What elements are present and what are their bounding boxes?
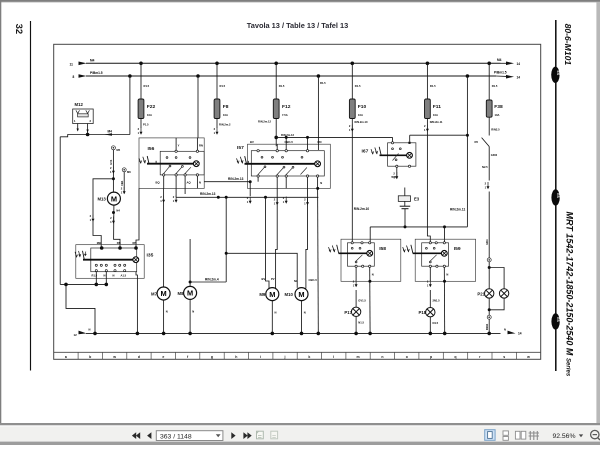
svg-text:s: s — [503, 355, 505, 359]
wire I57 to M9 left — [266, 197, 270, 288]
svg-text:R/N.2m.2: R/N.2m.2 — [219, 122, 231, 126]
switch D5 on F38 column — [475, 138, 498, 181]
node P21 top — [488, 266, 491, 269]
svg-text:d: d — [138, 355, 140, 359]
node 8 bus — [73, 70, 521, 79]
svg-text:N: N — [304, 311, 306, 315]
sidebar badge 3 — [551, 313, 560, 329]
svg-text:R1.5: R1.5 — [279, 84, 285, 88]
svg-text:92.56%: 92.56% — [552, 433, 575, 440]
svg-text:RN: RN — [117, 241, 121, 245]
wire below I57 left — [204, 177, 250, 182]
svg-text:7.5A: 7.5A — [282, 113, 288, 117]
wire I67 WR down — [391, 167, 396, 179]
svg-text:e: e — [162, 355, 164, 359]
svg-text:I56: I56 — [148, 146, 155, 152]
svg-text:14: 14 — [517, 62, 521, 66]
harness arrow on I35 left wire — [90, 214, 95, 222]
svg-text:R/N.2m.11: R/N.2m.11 — [430, 120, 443, 124]
svg-text:Tavola 13 / Table 13 / Tafel 1: Tavola 13 / Table 13 / Tafel 13 — [247, 21, 348, 30]
svg-text:M6: M6 — [127, 170, 131, 174]
lamp P21 left — [477, 289, 494, 298]
svg-text:ES: ES — [556, 317, 560, 322]
svg-text:N: N — [192, 310, 194, 314]
wire I56 BQ to M7 — [163, 188, 165, 287]
svg-text:I59: I59 — [454, 246, 461, 252]
svg-text:N: N — [199, 181, 201, 185]
svg-text:b: b — [89, 355, 91, 359]
node left — [64, 283, 68, 287]
wire into I67 top left — [392, 137, 394, 141]
svg-text:M12: M12 — [75, 102, 84, 107]
svg-text:P/Bm1.5: P/Bm1.5 — [90, 71, 103, 75]
svg-text:R/N.2m.10: R/N.2m.10 — [354, 207, 370, 211]
svg-text:363 / 1148: 363 / 1148 — [160, 433, 192, 440]
schematic outer frame — [54, 44, 541, 359]
wire I57 coil N to bus — [318, 181, 323, 333]
fuse F22 — [138, 63, 155, 128]
node on R/N wire 2 — [264, 196, 267, 199]
svg-text:E3: E3 — [414, 197, 420, 202]
lamp P21 right — [499, 289, 508, 298]
svg-text:BV: BV — [250, 140, 254, 144]
svg-text:P17: P17 — [344, 310, 352, 315]
layout icon single page (selected) — [485, 430, 495, 441]
layout icon facing — [515, 431, 525, 439]
wire I56 outer box left down to I35 — [136, 188, 139, 248]
svg-text:10A: 10A — [495, 113, 500, 117]
node M10 feed — [225, 252, 228, 255]
node below I57 — [249, 180, 252, 183]
svg-text:10A: 10A — [358, 113, 363, 117]
node — [285, 136, 288, 139]
node F12 output — [274, 136, 278, 140]
svg-text:14: 14 — [518, 332, 522, 336]
relay I56 — [139, 138, 204, 189]
sidebar badge 2 — [551, 189, 560, 205]
toolbar page input box — [156, 431, 223, 441]
wire I57 pin up to R/N.2m.12 line — [285, 137, 287, 149]
lamp P17 — [344, 307, 364, 333]
wire I35 mid pin down — [105, 272, 107, 285]
svg-text:M7: M7 — [151, 292, 158, 297]
wire F12 into I57 — [276, 144, 278, 149]
wire M13 to I35 — [114, 205, 137, 248]
bottom strip — [0, 442, 600, 445]
fuse F12 — [258, 63, 291, 146]
viewer right scroll strip — [596, 2, 600, 423]
svg-text:I67: I67 — [362, 149, 369, 155]
svg-text:R1.5: R1.5 — [430, 84, 436, 88]
harness arrow under I56 — [160, 195, 165, 203]
harness arrow I59 lamp — [427, 280, 432, 288]
svg-text:N1.5: N1.5 — [433, 321, 439, 325]
relay I58 — [329, 239, 401, 281]
svg-text:m: m — [357, 355, 360, 359]
motor M7 — [151, 287, 170, 300]
svg-text:I57: I57 — [237, 145, 244, 151]
svg-text:BQ: BQ — [156, 181, 160, 185]
svg-text:N: N — [446, 272, 448, 276]
fuse F10 — [349, 63, 369, 243]
harness arrow under M13 — [110, 216, 115, 224]
wire bus8 right drop to I67 — [410, 76, 468, 227]
harness arrow on F38 column — [485, 182, 490, 190]
svg-text:h: h — [235, 355, 237, 359]
wire to I35 left pin — [93, 179, 113, 248]
svg-text:RN: RN — [199, 144, 203, 148]
svg-text:R1.5: R1.5 — [492, 84, 498, 88]
wire I57 pin to node — [257, 177, 259, 182]
wire I59 N to bus — [444, 267, 448, 333]
wire M9 to bus — [272, 301, 276, 334]
svg-text:N: N — [113, 273, 115, 277]
svg-text:R/N.2m.12: R/N.2m.12 — [258, 120, 272, 124]
svg-text:o: o — [406, 355, 408, 359]
node I58 outer bottom — [368, 280, 371, 283]
svg-text:10A: 10A — [147, 113, 152, 117]
svg-text:M4: M4 — [497, 58, 502, 62]
svg-text:N: N — [275, 311, 277, 315]
svg-text:GV1: GV1 — [109, 159, 113, 165]
svg-text:11: 11 — [70, 62, 74, 66]
wire down to I59 coil — [444, 227, 446, 243]
svg-text:w: w — [526, 355, 530, 359]
wire I56 pin AQ stub — [184, 188, 186, 194]
svg-text:2N1.5: 2N1.5 — [433, 298, 441, 302]
svg-text:GR4: GR4 — [485, 239, 489, 245]
svg-text:MB: MB — [97, 241, 101, 245]
svg-text:Y: Y — [178, 144, 180, 148]
wire I35 left pin down — [95, 272, 97, 285]
svg-text:I58: I58 — [379, 246, 386, 252]
motor M8 — [178, 286, 197, 299]
svg-text:P/Bm1.5: P/Bm1.5 — [494, 70, 507, 74]
wire down to I58 coil — [369, 227, 371, 243]
svg-text:p: p — [430, 355, 432, 359]
svg-text:CB1: CB1 — [120, 180, 124, 186]
connector M6 — [120, 168, 131, 194]
layout icon continuous facing — [529, 431, 539, 440]
svg-text:BV: BV — [262, 277, 266, 281]
svg-text:N: N — [504, 328, 506, 332]
fuse F8 — [214, 63, 231, 128]
fuse F38 — [486, 63, 503, 135]
svg-text:F22: F22 — [147, 104, 156, 110]
harness arrow under I67 — [393, 172, 398, 180]
wire I58 N to bus — [370, 267, 374, 333]
wire bus8 into I57 coil — [317, 76, 319, 150]
svg-text:F8: F8 — [223, 104, 229, 110]
wire I57 to M10 right — [306, 188, 308, 288]
harness arrow on M13 feed — [110, 166, 115, 174]
node — [105, 283, 109, 287]
svg-text:10A: 10A — [223, 113, 228, 117]
harness arrow under I56 AQ — [173, 195, 178, 203]
svg-text:R/N2.5: R/N2.5 — [491, 128, 500, 132]
wire ground link under I35 — [60, 283, 106, 285]
wire M8 to bus — [190, 299, 194, 333]
node 11 bus (top supply) — [70, 58, 521, 67]
wire M10 to bus — [302, 301, 306, 334]
svg-text:M10: M10 — [285, 292, 294, 297]
harness arrow under F10 — [349, 124, 354, 132]
svg-text:ES: ES — [556, 71, 560, 76]
toolbar next-view icon — [271, 431, 278, 439]
svg-text:10A: 10A — [433, 113, 438, 117]
svg-text:AQ: AQ — [187, 181, 191, 185]
svg-text:R/N.2m.10: R/N.2m.10 — [355, 120, 369, 124]
node — [306, 136, 309, 139]
svg-text:GR/2: GR/2 — [491, 153, 498, 157]
toolbar background — [0, 425, 600, 441]
svg-text:PV: PV — [271, 277, 275, 281]
right sidebar rule — [555, 20, 557, 371]
svg-text:M4: M4 — [90, 58, 95, 62]
zoom dropdown caret — [579, 434, 583, 437]
svg-text:N: N — [320, 181, 322, 185]
relay I57 — [237, 140, 331, 188]
viewer left border — [0, 0, 1, 424]
svg-text:q: q — [454, 355, 456, 359]
harness arrow on M6 wire — [121, 187, 126, 195]
layout icon continuous — [503, 431, 508, 440]
svg-text:N1.5: N1.5 — [358, 321, 364, 325]
svg-text:M5: M5 — [116, 148, 120, 152]
svg-text:N: N — [372, 272, 374, 276]
svg-text:F12: F12 — [282, 104, 291, 110]
wire I57 pin up 2 — [307, 137, 309, 149]
svg-text:P21: P21 — [477, 291, 485, 296]
svg-text:n: n — [381, 355, 383, 359]
connector above P21 — [487, 258, 491, 262]
toolbar next-page button — [231, 432, 235, 439]
relay I67 — [362, 142, 416, 168]
connector below P21 — [487, 315, 491, 319]
svg-text:D5: D5 — [475, 140, 479, 144]
wire step to bus — [66, 284, 95, 333]
toolbar prev-view icon — [257, 431, 264, 439]
svg-text:M4: M4 — [108, 129, 113, 133]
fuse F11 — [425, 63, 444, 243]
svg-text:j: j — [284, 355, 286, 359]
node E3 to harness — [404, 225, 407, 228]
component E3 (buzzer) — [398, 188, 419, 227]
wire I57 to M9 right — [276, 188, 278, 288]
svg-text:I35: I35 — [147, 253, 154, 259]
motor M9 — [259, 288, 278, 301]
relay I35 — [75, 245, 154, 279]
motor M10 — [285, 288, 309, 301]
relay I59 — [403, 239, 476, 281]
left separator rule — [30, 21, 32, 371]
svg-text:N: N — [89, 327, 91, 331]
svg-text:F10: F10 — [358, 104, 367, 110]
wire harness horizontal to I58/I59 — [370, 226, 467, 228]
svg-text:F11: F11 — [433, 104, 441, 110]
node 12 bus (bottom return) — [74, 327, 522, 337]
svg-text:M8: M8 — [178, 291, 185, 296]
svg-text:l: l — [333, 355, 334, 359]
harness arrow under F8 — [214, 127, 219, 135]
node I59 outer bottom — [443, 280, 446, 283]
svg-text:a: a — [65, 355, 67, 359]
svg-text:N2.5: N2.5 — [482, 165, 488, 169]
svg-text:R1.5: R1.5 — [320, 81, 326, 85]
svg-text:D/N4: D/N4 — [485, 323, 489, 330]
node under M13 — [112, 211, 115, 214]
svg-text:P18: P18 — [419, 310, 427, 315]
lamp P18 — [419, 308, 439, 334]
svg-text:32: 32 — [13, 24, 24, 35]
svg-text:i: i — [260, 355, 261, 359]
wire M7 to bus — [164, 300, 168, 334]
svg-text:R1.5: R1.5 — [220, 84, 226, 88]
svg-text:ES: ES — [556, 193, 560, 198]
harness arrow I58 lamp — [353, 280, 358, 288]
svg-text:A1.5: A1.5 — [121, 273, 127, 277]
svg-text:N: N — [104, 273, 106, 277]
harness arrows below I57 — [247, 196, 252, 204]
node on R/N wire — [217, 196, 220, 199]
harness arrow under F22 — [138, 127, 143, 135]
svg-text:R1.5: R1.5 — [92, 273, 98, 277]
svg-text:CB/1.5: CB/1.5 — [309, 278, 318, 282]
svg-text:M13: M13 — [97, 197, 106, 202]
node M12 pin junction — [86, 133, 90, 137]
node bus8 drop — [466, 134, 469, 137]
wire P21 pair loop — [489, 262, 504, 334]
svg-text:F38: F38 — [494, 104, 503, 110]
harness arrow under F11 — [424, 124, 429, 132]
grid reference strip — [54, 352, 541, 359]
node — [95, 283, 99, 287]
wire branch to M8/M10 — [190, 197, 297, 288]
wire R/N.2m.13 horizontal — [176, 188, 318, 197]
wire F38 column lower — [485, 192, 489, 258]
svg-text:MRT 1542-1742-1850-2150-2540 M: MRT 1542-1742-1850-2150-2540 M Series — [565, 212, 575, 377]
svg-text:R/N.2m.11: R/N.2m.11 — [450, 208, 465, 212]
svg-text:R1.5: R1.5 — [144, 84, 150, 88]
svg-text:R/N.2m.12: R/N.2m.12 — [281, 133, 295, 137]
svg-text:GV1.5: GV1.5 — [358, 298, 366, 302]
wire I58 lamp branch — [356, 267, 366, 307]
node branch — [225, 196, 228, 199]
node M13 branch — [112, 177, 115, 180]
wire I59 lamp branch — [430, 267, 440, 307]
svg-text:N: N — [166, 310, 168, 314]
wire M8 feed — [189, 282, 191, 287]
toolbar last-page button — [243, 432, 251, 439]
svg-text:R1.5: R1.5 — [355, 84, 361, 88]
svg-text:g: g — [211, 355, 213, 359]
svg-text:N4: N4 — [116, 209, 120, 213]
toolbar first-page button — [132, 432, 140, 439]
svg-text:NL: NL — [294, 279, 298, 283]
svg-text:M9: M9 — [259, 292, 266, 297]
svg-text:w: w — [112, 355, 116, 359]
wire I35 right pin to bus — [136, 272, 137, 334]
sidebar badge 1 — [551, 67, 560, 83]
wire M4 feed (bus 8 drop) — [60, 76, 130, 284]
connector M5 — [109, 146, 121, 192]
viewer top border — [0, 0, 600, 2]
zoom-out icon — [591, 430, 600, 440]
svg-text:12: 12 — [74, 333, 78, 337]
node I57 N — [316, 187, 319, 190]
relay M12 — [73, 102, 94, 135]
svg-text:P1.5: P1.5 — [143, 122, 149, 126]
node I59 coil feed — [443, 225, 446, 228]
svg-text:14: 14 — [517, 76, 521, 80]
toolbar prev-page button — [147, 432, 151, 439]
svg-text:8: 8 — [73, 75, 75, 79]
junction dots on bus 8 — [128, 74, 132, 78]
svg-text:80-6-M101: 80-6-M101 — [563, 24, 573, 66]
node P21 bottom — [488, 308, 491, 311]
wire bus8 to I56 coil — [197, 76, 199, 138]
svg-text:k: k — [308, 355, 310, 359]
svg-text:R/N.2m.4: R/N.2m.4 — [205, 277, 219, 281]
junction dots on bus 12 — [93, 332, 97, 336]
motor M13 — [97, 192, 120, 205]
junction dots on bus 11 — [139, 62, 143, 66]
svg-text:R/N.2m.13: R/N.2m.13 — [228, 177, 244, 181]
svg-text:R/N.2m.13: R/N.2m.13 — [200, 192, 216, 196]
wire F12 to I67 — [276, 133, 392, 137]
node M8 feed — [189, 281, 192, 284]
toolbar divider — [0, 423, 600, 425]
